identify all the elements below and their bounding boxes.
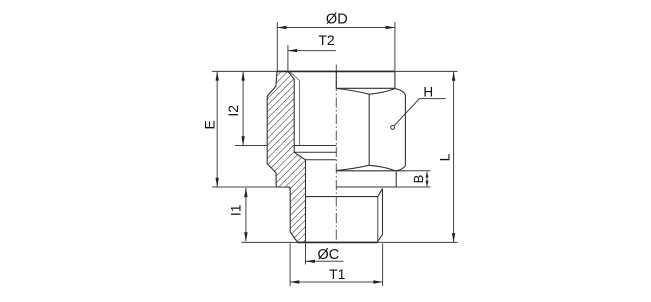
dimension OD: [277, 22, 395, 71]
part bottom edge emphasis: [298, 241, 378, 243]
top cylinder: [336, 71, 395, 88]
dimension E: [216, 71, 218, 187]
dimension T2: [288, 45, 336, 71]
svg-text:I2: I2: [225, 105, 241, 117]
svg-text:T1: T1: [329, 266, 346, 282]
svg-text:I1: I1: [228, 204, 244, 216]
wire top edge with extension lines: [212, 70, 458, 72]
dimension I1: [212, 186, 290, 188]
dimension OC: [305, 244, 307, 265]
centerline: [335, 65, 337, 245]
part top edge emphasis: [277, 70, 395, 72]
hex body: [337, 89, 406, 171]
dimension T1: [289, 244, 291, 287]
female thread end lines: [294, 146, 336, 160]
svg-text:ØC: ØC: [318, 247, 340, 263]
section body (hatched left half): [267, 71, 305, 242]
svg-text:E: E: [202, 120, 218, 129]
svg-text:T2: T2: [318, 32, 335, 48]
male thread: [306, 189, 383, 243]
dimension L: [453, 72, 455, 243]
svg-text:ØD: ØD: [326, 12, 348, 28]
wire bottom edge with extension lines: [242, 241, 458, 243]
svg-text:B: B: [411, 175, 426, 184]
dimension B: [405, 170, 430, 172]
svg-text:L: L: [436, 153, 452, 161]
female thread major line: [298, 81, 300, 146]
svg-text:H: H: [423, 85, 433, 100]
dimension I2: [235, 145, 267, 147]
hex washer collar: [336, 171, 405, 187]
